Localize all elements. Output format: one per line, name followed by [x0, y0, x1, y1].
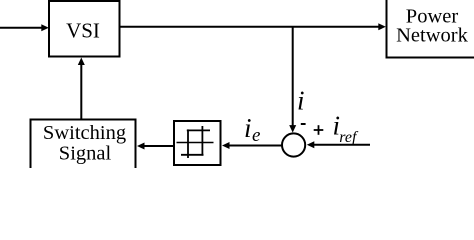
svg-text:i: i: [244, 113, 252, 143]
svg-text:ref: ref: [339, 129, 359, 146]
svg-text:Signal: Signal: [59, 143, 112, 165]
svg-text:Switching: Switching: [43, 122, 126, 144]
svg-text:i: i: [297, 85, 305, 115]
svg-text:Network: Network: [396, 25, 468, 47]
svg-text:VSI: VSI: [66, 18, 100, 42]
svg-text:e: e: [252, 125, 260, 146]
